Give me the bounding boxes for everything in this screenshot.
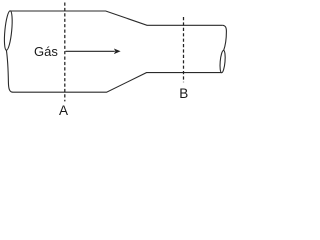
left opening ellipse — [3, 10, 14, 50]
pipe top edge — [10, 11, 222, 25]
gas flow arrow — [66, 50, 115, 52]
dashed section line A — [64, 3, 66, 102]
svg-text:A: A — [59, 103, 68, 118]
svg-text:Gás: Gás — [34, 44, 58, 59]
right opening ellipse — [219, 50, 226, 73]
left outer wall curve — [6, 50, 13, 92]
right outer wall curve — [222, 25, 226, 50]
dashed section line B — [183, 17, 185, 82]
pipe bottom edge — [13, 73, 222, 93]
svg-text:B: B — [179, 86, 188, 101]
